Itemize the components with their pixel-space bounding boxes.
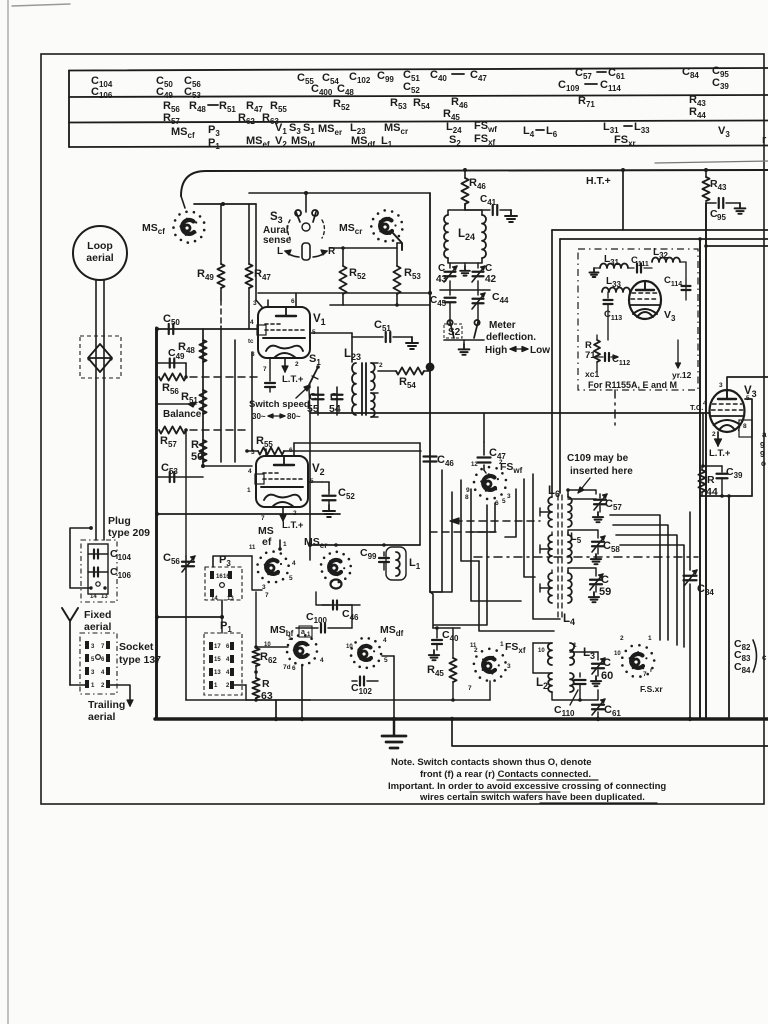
table top line bbox=[69, 68, 768, 71]
svg-text:7: 7 bbox=[643, 671, 647, 678]
svg-text:H.T.+: H.T.+ bbox=[586, 175, 611, 187]
svg-text:Plug: Plug bbox=[108, 515, 131, 527]
wire C47 top bbox=[483, 413, 485, 442]
bus x706 down bbox=[705, 203, 707, 719]
svg-text:Important. In order to avoid e: Important. In order to avoid excessive c… bbox=[388, 781, 666, 792]
resistor R46 bbox=[464, 170, 466, 178]
capacitor C59 variable bbox=[568, 568, 596, 576]
svg-text:16: 16 bbox=[223, 574, 230, 580]
svg-text:2: 2 bbox=[620, 635, 624, 642]
chassis dash line bbox=[474, 556, 698, 558]
svg-text:17: 17 bbox=[214, 644, 221, 650]
resistor R47 bbox=[248, 204, 250, 264]
svg-text:14: 14 bbox=[90, 594, 97, 600]
wire MSef stem bbox=[279, 540, 281, 549]
wire rnest 1 bbox=[610, 515, 660, 640]
svg-text:5: 5 bbox=[502, 498, 506, 505]
svg-text:4: 4 bbox=[320, 657, 324, 664]
svg-text:13: 13 bbox=[101, 594, 108, 600]
L24 centre ground bbox=[464, 263, 466, 266]
bus x700 down bbox=[699, 239, 701, 719]
socket type 137 box bbox=[80, 633, 117, 694]
svg-text:L.T.+: L.T.+ bbox=[282, 520, 304, 531]
svg-text:Switch speed: Switch speed bbox=[249, 399, 310, 410]
wire V2 anode up bbox=[322, 481, 329, 483]
capacitor C47 bbox=[478, 456, 491, 458]
AVC dashed line 1 bbox=[190, 376, 258, 378]
svg-text:2: 2 bbox=[499, 459, 503, 466]
svg-text:High: High bbox=[485, 345, 507, 356]
capacitor C57 variable bbox=[594, 499, 606, 501]
capacitor C61 variable bbox=[597, 690, 599, 700]
wire fsxf bottom bbox=[489, 681, 491, 700]
svg-text:7: 7 bbox=[261, 515, 265, 522]
wire rail2 bottom corner bbox=[186, 699, 310, 701]
svg-text:4: 4 bbox=[292, 560, 296, 567]
capacitor C39 bbox=[703, 465, 722, 467]
bus x442 vertical bbox=[430, 470, 442, 592]
svg-text:1: 1 bbox=[648, 635, 652, 642]
svg-text:10: 10 bbox=[614, 651, 621, 657]
wire rnest 3 bbox=[616, 535, 677, 645]
svg-text:T.C.: T.C. bbox=[690, 403, 703, 412]
wire MScr arm bbox=[392, 232, 402, 250]
resistor R43 bbox=[705, 170, 707, 177]
svg-text:42: 42 bbox=[485, 274, 497, 285]
svg-text:inserted here: inserted here bbox=[570, 466, 633, 477]
switch MScr bbox=[398, 235, 401, 238]
wire y204 horizontal bbox=[194, 203, 256, 205]
switch MSef bbox=[286, 572, 289, 575]
wire nest v2 bbox=[471, 489, 521, 601]
frame border bbox=[41, 54, 764, 804]
rail4 vertical bbox=[234, 340, 236, 462]
capacitor C54 bbox=[336, 387, 338, 415]
capacitor C60 variable bbox=[597, 652, 599, 660]
tube V3 bbox=[710, 390, 745, 432]
svg-text:2: 2 bbox=[295, 361, 299, 368]
svg-text:6: 6 bbox=[292, 665, 296, 672]
svg-text:14: 14 bbox=[211, 596, 218, 602]
svg-text:C109 may be: C109 may be bbox=[567, 453, 629, 464]
switch MSer bbox=[344, 577, 347, 580]
wire y617 bbox=[157, 616, 222, 618]
svg-text:R: R bbox=[191, 439, 199, 451]
wire nest v9 bbox=[434, 505, 487, 625]
loop aerial bbox=[73, 226, 127, 280]
svg-text:F.S.xr: F.S.xr bbox=[640, 684, 663, 694]
wire MSbf bottom drop bbox=[301, 666, 303, 719]
TC line bbox=[310, 412, 710, 414]
wire L2 bottom bbox=[552, 692, 598, 700]
resistor R54 bbox=[378, 370, 396, 372]
resistor R56 bbox=[159, 373, 186, 380]
svg-text:4: 4 bbox=[703, 400, 707, 407]
wire V3 cathode bbox=[717, 432, 719, 446]
switch FSwf bbox=[504, 486, 507, 489]
P1 contacts bbox=[209, 642, 213, 650]
capacitor C110 bbox=[579, 673, 581, 677]
wire R49 bottom bbox=[220, 288, 222, 300]
svg-text:3: 3 bbox=[251, 449, 255, 456]
svg-text:5: 5 bbox=[384, 657, 388, 664]
capacitor C42 variable bbox=[477, 263, 479, 268]
capacitor C41 bbox=[464, 204, 466, 210]
capacitor C43 variable bbox=[449, 263, 451, 268]
wire mixer bottom y592 bbox=[316, 592, 360, 605]
wire switchspeed arrow bbox=[296, 385, 310, 398]
svg-text:8: 8 bbox=[465, 494, 469, 501]
svg-text:3: 3 bbox=[719, 382, 723, 389]
left rail heavy bbox=[155, 328, 158, 719]
svg-text:12: 12 bbox=[471, 462, 478, 468]
svg-text:tc: tc bbox=[248, 339, 254, 345]
wire R52 R53 bottom bbox=[343, 304, 430, 306]
svg-text:11: 11 bbox=[249, 545, 256, 551]
wire MSef box bbox=[252, 556, 262, 590]
wire V1 grid cap bbox=[255, 204, 257, 300]
svg-text:Fixed: Fixed bbox=[84, 609, 111, 621]
svg-text:13: 13 bbox=[214, 670, 221, 676]
svg-text:L.T.+: L.T.+ bbox=[282, 374, 304, 385]
svg-text:7d: 7d bbox=[283, 664, 291, 671]
wire y700 segment bbox=[310, 699, 490, 701]
svg-text:Socket: Socket bbox=[119, 641, 154, 653]
wire V1 pin8 down bbox=[251, 352, 253, 450]
inductor L2 bbox=[548, 673, 552, 692]
switch FSxr bbox=[651, 667, 654, 670]
wire V1 anode top bbox=[258, 292, 430, 294]
svg-text:13: 13 bbox=[227, 596, 234, 602]
wire feed y246 bbox=[706, 245, 768, 247]
wire L3 L2 left bbox=[533, 642, 552, 644]
table bottom line bbox=[69, 146, 768, 148]
wire C39 bottom bbox=[700, 495, 752, 497]
wire rnest 4 bbox=[620, 545, 684, 647]
wire C47 to FSwf bbox=[484, 470, 486, 473]
tube V1 bbox=[258, 307, 310, 358]
wire L23 pins bbox=[371, 362, 378, 364]
rail3 vertical bbox=[220, 326, 222, 462]
capacitor C55 bbox=[317, 387, 319, 415]
AVC dash line2 bbox=[430, 531, 496, 533]
AVC dashed line 2 bbox=[190, 429, 250, 431]
wire nest v8 bbox=[430, 492, 452, 592]
resistor R49 bbox=[220, 204, 222, 264]
svg-text:Low: Low bbox=[530, 345, 550, 356]
resistor R63 bbox=[252, 678, 259, 698]
drop x276 bus bbox=[275, 700, 277, 719]
wire top left segment bbox=[249, 192, 430, 194]
loop connector box bbox=[80, 336, 121, 378]
svg-text:xc1: xc1 bbox=[585, 369, 599, 379]
svg-text:30~: 30~ bbox=[252, 412, 266, 421]
wire P3 top bbox=[213, 556, 252, 567]
wire feed x552 down bbox=[551, 230, 553, 493]
capacitor C46b bbox=[322, 604, 330, 606]
svg-text:ef: ef bbox=[262, 536, 272, 548]
bus x430 vertical bbox=[429, 193, 431, 592]
wire L6 right top bbox=[568, 498, 596, 500]
plug 209 bottom contacts bbox=[89, 586, 92, 589]
svg-text:4: 4 bbox=[383, 637, 387, 644]
inductor L1 bbox=[386, 547, 406, 580]
wire S3 top bbox=[305, 193, 307, 212]
svg-text:15: 15 bbox=[214, 657, 221, 663]
resistor R45 bbox=[452, 628, 454, 658]
svg-text:1: 1 bbox=[247, 487, 251, 494]
svg-text:3: 3 bbox=[507, 493, 511, 500]
svg-text:type 137: type 137 bbox=[119, 654, 161, 666]
svg-text:2: 2 bbox=[293, 510, 297, 517]
svg-text:front (f) a rear (r) Contacts: front (f) a rear (r) Contacts connected. bbox=[420, 769, 591, 780]
svg-text:60: 60 bbox=[601, 670, 613, 682]
resistor R57 bbox=[159, 426, 186, 433]
fixed aerial symbol bbox=[62, 608, 78, 621]
inductor L3 bbox=[548, 643, 552, 665]
wire second bottom bbox=[452, 719, 768, 746]
wire mixer top y545 bbox=[310, 544, 420, 546]
wire V3 top bbox=[727, 377, 768, 390]
svg-text:C: C bbox=[330, 391, 338, 403]
AVC dash arrow line bbox=[455, 520, 540, 522]
switch MSbf bbox=[316, 650, 319, 653]
svg-text:2: 2 bbox=[379, 362, 383, 369]
rail2 vertical bbox=[202, 329, 204, 466]
connector P3 bbox=[205, 567, 242, 600]
wire L6 to C57 top bbox=[568, 490, 596, 497]
wire nest v6 bbox=[524, 479, 535, 577]
svg-text:5: 5 bbox=[289, 575, 293, 582]
svg-text:aerial: aerial bbox=[88, 711, 116, 723]
capacitor C104 bbox=[88, 553, 108, 555]
svg-text:10: 10 bbox=[346, 644, 353, 650]
svg-text:59: 59 bbox=[599, 586, 611, 598]
svg-text:43: 43 bbox=[436, 274, 448, 285]
wire R52 R53 top bbox=[330, 247, 397, 249]
svg-text:80~: 80~ bbox=[287, 412, 301, 421]
svg-text:S2: S2 bbox=[448, 327, 461, 338]
svg-text:r: r bbox=[762, 134, 767, 146]
svg-text:1: 1 bbox=[500, 641, 504, 648]
wire TC left drop bbox=[309, 413, 311, 560]
table divider 1 bbox=[69, 95, 768, 97]
tube V2 bbox=[256, 456, 308, 507]
drop x222 P1 bbox=[221, 617, 223, 633]
resistor R53 bbox=[393, 266, 400, 294]
svg-text:yr.12: yr.12 bbox=[672, 370, 692, 380]
svg-text:Trailing: Trailing bbox=[88, 699, 125, 711]
wire feed y239 bbox=[560, 238, 768, 240]
wire x430 bottom corner bbox=[430, 592, 433, 628]
wire V3 grid side bbox=[702, 413, 704, 466]
svg-text:deflection.: deflection. bbox=[486, 332, 536, 343]
capacitor C58 variable bbox=[568, 530, 598, 538]
svg-text:1: 1 bbox=[288, 635, 292, 642]
svg-text:9: 9 bbox=[760, 441, 765, 450]
wire HT drop x623 bbox=[622, 170, 624, 230]
svg-text:Loop: Loop bbox=[87, 240, 113, 252]
svg-text:aerial: aerial bbox=[86, 252, 114, 264]
switch MSdf bbox=[378, 660, 381, 663]
wire V1 top stubs bbox=[267, 300, 269, 307]
table divider 2 bbox=[69, 121, 768, 123]
connector P1 bbox=[204, 633, 242, 695]
wire rnest 2 bbox=[613, 525, 668, 640]
wire feed y230 bbox=[552, 229, 768, 231]
wire nest v3 bbox=[479, 561, 554, 631]
capacitor C52 bbox=[328, 490, 330, 494]
svg-text:7: 7 bbox=[263, 366, 267, 373]
svg-text:aerial: aerial bbox=[84, 621, 112, 633]
wire MSdf pin4 bbox=[382, 655, 394, 657]
svg-text:6: 6 bbox=[289, 447, 293, 454]
svg-text:C: C bbox=[601, 574, 609, 586]
wire V2 top stubs bbox=[265, 449, 267, 456]
svg-text:R: R bbox=[707, 474, 715, 486]
wire V1 cathode bbox=[284, 358, 286, 372]
svg-text:7: 7 bbox=[265, 592, 269, 599]
HT+ bus bbox=[181, 170, 768, 196]
svg-text:C: C bbox=[438, 263, 445, 274]
dashed box for R1155A bbox=[578, 249, 698, 390]
wire feed x560 down bbox=[559, 239, 561, 493]
capacitor C45 bbox=[449, 290, 451, 295]
switch S2 bbox=[447, 320, 454, 338]
switch FSxf bbox=[500, 675, 503, 678]
wire C43 C42 bottom bbox=[449, 281, 451, 290]
svg-text:95: 95 bbox=[717, 213, 726, 222]
wire nest v1 bbox=[461, 480, 479, 561]
wire V2 cathode bbox=[282, 507, 284, 521]
svg-text:type 209: type 209 bbox=[108, 527, 150, 539]
svg-text:Balance: Balance bbox=[163, 409, 202, 420]
scan artifact edge bbox=[7, 0, 9, 1024]
wire ladder bottom bbox=[185, 430, 187, 556]
svg-text:L.T.+: L.T.+ bbox=[709, 448, 731, 459]
resistor R62 bbox=[255, 592, 257, 648]
socket 137 contacts bbox=[85, 641, 89, 649]
rail3 dash top bbox=[220, 300, 222, 326]
svg-text:1: 1 bbox=[573, 642, 577, 649]
L6 core dashed bbox=[557, 495, 559, 620]
svg-text:C: C bbox=[603, 657, 611, 669]
wire MScf top bbox=[181, 196, 185, 208]
table left edge bbox=[68, 71, 70, 148]
svg-text:R: R bbox=[262, 678, 270, 690]
wire nest v4 bbox=[470, 503, 495, 532]
capacitor C95 bbox=[706, 202, 716, 204]
resistor R52 bbox=[339, 266, 346, 294]
capacitor C46a bbox=[424, 455, 437, 457]
capacitor C106 bbox=[88, 571, 108, 573]
wire C100 right bbox=[351, 605, 353, 628]
node C50 junction bbox=[155, 327, 159, 331]
wire V2 anode bbox=[308, 481, 322, 483]
svg-text:2: 2 bbox=[474, 647, 478, 654]
wire nest v5 bbox=[505, 489, 516, 537]
svg-text:c: c bbox=[762, 653, 767, 662]
main ground bbox=[393, 719, 395, 736]
svg-text:7: 7 bbox=[468, 685, 472, 692]
wire mixer row bottom bbox=[246, 699, 310, 701]
svg-text:8: 8 bbox=[743, 423, 747, 430]
svg-text:L: L bbox=[277, 246, 283, 257]
svg-text:6: 6 bbox=[291, 298, 295, 305]
svg-text:9: 9 bbox=[760, 450, 765, 459]
svg-text:For R1155A, E and M: For R1155A, E and M bbox=[588, 380, 677, 390]
svg-text:3: 3 bbox=[507, 663, 511, 670]
wire y628 bbox=[433, 627, 460, 629]
svg-text:4: 4 bbox=[248, 468, 252, 475]
wire L3 right to C60 bbox=[570, 651, 598, 653]
faint line y162 bbox=[655, 161, 768, 163]
wire V3 anode right bbox=[745, 399, 752, 496]
svg-text:o: o bbox=[761, 459, 766, 468]
chassis dash v bbox=[614, 390, 616, 425]
capacitor C44 variable bbox=[477, 290, 479, 295]
svg-text:Meter: Meter bbox=[489, 320, 516, 331]
svg-text:1: 1 bbox=[283, 541, 287, 548]
svg-text:10: 10 bbox=[538, 648, 545, 654]
loop aerial twin feeder bbox=[95, 280, 97, 540]
svg-text:sense: sense bbox=[263, 235, 292, 246]
svg-text:a: a bbox=[301, 629, 305, 636]
wire V1 anode to L23 bbox=[310, 332, 352, 334]
resistor R44 bbox=[698, 470, 705, 492]
svg-text:9: 9 bbox=[466, 487, 470, 494]
wire y514 bbox=[157, 513, 340, 515]
wire nest v7 bbox=[533, 474, 560, 619]
svg-text:C: C bbox=[485, 263, 492, 274]
trailing aerial wire bbox=[110, 685, 130, 706]
capacitor C84 variable bbox=[689, 512, 691, 570]
plug 209 left hook wire bbox=[70, 528, 91, 588]
V1 pin1 capacitor bbox=[269, 358, 271, 381]
svg-text:a: a bbox=[762, 430, 767, 439]
tube V3a bbox=[629, 281, 661, 319]
note underline bbox=[497, 779, 598, 781]
switch MScf bbox=[203, 229, 206, 232]
svg-text:2: 2 bbox=[712, 431, 716, 438]
L6 L5 L4 windings bbox=[548, 497, 552, 527]
wire V2 grid line bbox=[203, 465, 252, 467]
bus x729 down bbox=[728, 496, 730, 719]
svg-text:4: 4 bbox=[250, 319, 254, 326]
svg-text:Note. Switch contacts shown th: Note. Switch contacts shown thus O, deno… bbox=[391, 757, 592, 768]
wire P1 bottom bbox=[234, 684, 246, 686]
fixed aerial to socket wire bbox=[70, 684, 85, 686]
junction dots bottom bbox=[392, 717, 396, 721]
wire P3 bottom bbox=[221, 600, 223, 617]
plug 209 box bbox=[81, 540, 117, 602]
svg-text:wires certain switch wafers ha: wires certain switch wafers have been du… bbox=[419, 792, 645, 803]
bottom bus heavy bbox=[155, 717, 768, 720]
